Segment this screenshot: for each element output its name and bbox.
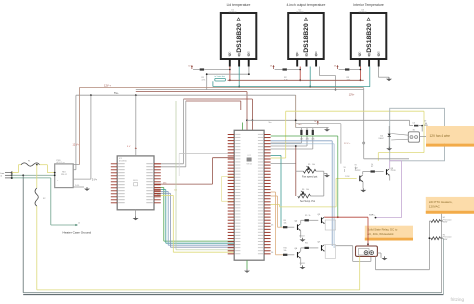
svg-text:DS18B20: DS18B20 [359,12,367,14]
wire sensor data down [176,101,234,250]
svg-text:LID PTC Heaters,: LID PTC Heaters, [429,200,453,204]
svg-text:4.7k: 4.7k [202,80,206,82]
wire R8 to Q4 [288,226,295,228]
controller IC2 [228,130,271,260]
tiny resistor fan feed [413,123,423,127]
svg-text:4-inch output temperature: 4-inch output temperature [287,3,326,7]
wire AC hot to fuse [12,165,55,173]
svg-text:10k: 10k [306,189,309,191]
fan circuit outline [390,108,445,161]
wire yellow down [271,111,286,158]
pin stubs IC1 right [154,164,161,196]
svg-text:12 V +: 12 V + [344,143,351,145]
svg-text:1k: 1k [371,164,373,166]
resistor R7 [371,164,375,173]
AC line terminals [1,172,13,179]
junction fan feed [421,125,423,132]
wire grey y120.3 [247,120,413,125]
junction Vin [246,119,271,124]
power symbol 5V pullups [314,121,319,125]
wire hot down [36,165,38,290]
wire Q4 collector [301,220,305,223]
wire orange from IC2 a [271,195,278,197]
watermark fritzing [451,297,465,302]
wire U2 VDD [275,67,302,82]
temperature sensor U2 DS18B20 (Fan output temperature) [287,3,326,67]
ground D1 [386,147,392,151]
wire yellow loop at IC2 [222,177,243,202]
junction AC hot [36,164,38,166]
svg-text:PWM: PWM [345,176,350,178]
microcontroller IC1 [111,156,161,210]
svg-text:MCU: MCU [133,180,138,182]
resistor R2 [283,68,288,81]
label D/C [163,182,167,184]
ground IC2 [244,269,250,273]
transistor Q4 [295,221,305,238]
wire AC earth [12,178,77,225]
wire blue1 down [271,141,333,246]
wire Q2 collector [363,172,371,175]
wire diode to motor [391,134,408,141]
resistor R3 [345,68,350,81]
wire IC1 5V supply [127,95,137,156]
svg-text:DS18B20: DS18B20 [296,12,304,14]
solid state relay K1 [356,246,378,256]
svg-text:2N2222: 2N2222 [299,236,305,238]
pin 5V fan [424,121,427,126]
wire AC neutral [12,174,55,176]
svg-text:Vin: Vin [269,122,272,124]
svg-text:120VAC: 120VAC [429,204,441,208]
svg-text:1k: 1k [309,215,311,217]
fuse F1 [21,161,40,167]
junction purple [375,217,377,219]
wire U2 DQ [309,67,311,87]
fan motor connector [408,130,419,143]
diode D1 [379,126,391,147]
wire green down [271,136,339,218]
resistor R10 10k [283,248,287,256]
ground Q6 [300,265,306,269]
wire base stage1 [278,196,284,227]
ground Q4 [300,238,306,242]
wire base stage2 [276,192,284,255]
svg-text:AC-DC ps: AC-DC ps [57,161,65,164]
wire U2 GND [319,67,335,90]
wire U1 VDD [193,67,231,82]
wire 5V to +5V node [295,95,297,127]
svg-text:10k: 10k [284,222,287,224]
wire U1 GND [207,67,249,90]
heater H1 [429,217,451,223]
wire R9 to Q5 [309,219,318,221]
wire 12V+ rail [79,83,364,87]
wire 1-wire bus (teal) [213,81,370,86]
wire SPI yellow [161,195,234,252]
wire teal down [271,156,281,228]
wire SSR frame [353,246,371,262]
label CLK [157,194,162,196]
wire yellow fanpwm [271,176,357,207]
power supply PS1 AC-DC [55,160,73,188]
svg-text:M1: M1 [413,130,415,132]
junction H2 [429,237,443,239]
wire 12V feed to fan [349,88,364,159]
wire PS1 GND out [73,185,84,187]
svg-text:R9: R9 [305,215,307,217]
pin labels stage2 [271,225,273,254]
svg-text:Set Temp. Pot: Set Temp. Pot [300,200,315,203]
svg-text:TIP120: TIP120 [391,170,396,172]
svg-text:1N4007: 1N4007 [379,138,384,140]
wire SSR AC out [376,221,430,270]
wire to IC1 right pins [161,99,186,167]
svg-text:5 V: 5 V [127,146,131,148]
wire VCC sensors (dark red) [228,79,364,81]
wire motor to label [420,136,427,138]
wire heater common [441,214,443,293]
wire Q6 collector [301,248,305,251]
svg-text:2N2222: 2N2222 [355,170,361,172]
wire PS1 5V out [73,95,97,181]
wire bus grey y89.6 [136,89,364,91]
wire R10 to Q6 [288,254,295,256]
wire IC1 gnd [135,210,137,217]
power symbol 5V for U3 [334,65,339,69]
resistor R1 [200,68,206,81]
wire Q3 emitter [389,176,391,181]
svg-text:DS18B20: DS18B20 [303,23,310,53]
resistor R4a 4.7k [271,128,304,143]
transistor Q5 [318,214,325,224]
svg-text:R7: R7 [371,166,373,168]
wire yellow top [286,111,424,161]
svg-text:MEGA: MEGA [246,163,252,166]
junction U1 dq [238,86,240,88]
potentiometer fan speed [296,164,324,179]
wire Q4 emitter gnd [300,231,302,238]
transistor Q2 [355,168,363,182]
wire bus y99 [184,99,253,130]
svg-text:10k: 10k [284,250,287,252]
svg-text:to 1-wire bus: to 1-wire bus [215,75,225,78]
label LID PTC Heaters [426,197,474,214]
svg-text:CLK: CLK [157,194,162,196]
svg-text:Fan speed pot: Fan speed pot [302,176,318,179]
svg-text:Lid temperature: Lid temperature [227,3,251,7]
ground PS1 [84,187,90,191]
fuse F2 [35,188,46,206]
resistor R11 [305,243,309,249]
wire stage2 to SSR [336,245,353,247]
wire R11 to Q7 [309,247,318,249]
resistor R4b 4.7k [271,128,309,146]
label 12V fan 4 wire [426,126,474,147]
svg-text:J2: J2 [78,222,80,224]
wire bus y101 [186,101,241,110]
wire neutral down [22,175,24,292]
label Heater Case Ground [63,231,92,235]
junction U2 dq [309,86,336,91]
wire SPI navy [161,193,234,247]
svg-text:4.7k: 4.7k [311,138,314,140]
svg-text:DS18B20: DS18B20 [366,23,373,53]
wire U3 VDD [339,67,362,82]
svg-text:5 V-: 5 V- [75,185,79,187]
svg-text:R5: R5 [308,164,310,166]
svg-text:12V +: 12V + [104,83,111,87]
ground pullups [324,128,330,132]
wire R7 to Q3 [375,171,383,174]
pin 5V small b [355,165,358,170]
wire bus VCC y91.6 [136,92,247,131]
wire Q5 collector SSR+ [325,214,376,244]
junction 5V [90,94,137,96]
ground IC1 [133,216,139,220]
junction AC neutral [22,174,24,176]
svg-text:SSR +: SSR + [369,214,376,216]
wire pot left [271,145,297,196]
wire Q6 emitter gnd [300,258,302,265]
transistor Q7 [318,241,325,251]
svg-text:4.7k: 4.7k [306,138,309,140]
temperature sensor U1 DS18B20 (Lid temperature) [221,3,256,67]
heater H2 [429,234,451,240]
svg-text:12 V+: 12 V+ [73,143,80,146]
transistor Q3 [387,168,396,175]
wire pullup bracket [296,127,329,129]
ground for U3 [386,77,392,81]
svg-text:in: in [1,176,3,178]
label 12V+ [73,143,80,146]
svg-text:Interior Temperature: Interior Temperature [353,3,384,7]
wire SPI teal [161,190,234,244]
junction +5V [295,119,302,126]
svg-text:D1: D1 [381,135,383,137]
wire SPI blue [161,191,234,245]
wire D/C [161,158,234,184]
wire Q3 collector purple [376,161,402,218]
resistor R9 [305,215,311,221]
ground SSR [382,256,388,260]
svg-text:R6: R6 [302,189,304,191]
resistor R4c 4.7k [271,128,315,149]
svg-text:DS18B20: DS18B20 [236,23,243,53]
junction SSR+ [367,243,369,246]
power symbol 5V for U2 [270,65,275,69]
wire SSR AC in yellow [359,256,361,290]
svg-text:fritzing: fritzing [451,297,465,302]
wire green stub IC2 top [241,123,243,131]
svg-text:12V fan 4 wire: 12V fan 4 wire [430,134,451,138]
wire pot right [324,171,327,196]
svg-text:D5: D5 [271,225,273,227]
wire 5V+ rail [76,91,296,95]
wire loop Q5 [325,220,335,230]
svg-text:AT-MEGA: AT-MEGA [119,159,127,162]
svg-text:AC, 40A, W/Heatsink: AC, 40A, W/Heatsink [367,232,394,236]
wire U3 DQ [369,67,371,87]
power symbol 5V for U1 [188,65,193,69]
svg-text:DS18B20: DS18B20 [229,12,237,14]
svg-text:Heater Case Ground: Heater Case Ground [63,231,92,235]
junction H1 [441,220,443,222]
ground Q2 [360,182,366,192]
wire SPI green [161,188,234,242]
wire SSR gnd [377,253,381,258]
label CS [174,190,177,192]
junction PS1 inputs [54,172,56,177]
resistor R8 10k [283,220,287,228]
wire blue2 down [271,144,335,248]
label Solid State Relay [365,226,413,241]
node header J1 (1-wire) [215,75,226,81]
wire PS1 out2 [73,95,76,170]
wire PS1 12V out [73,88,79,165]
svg-text:5 V+: 5 V+ [92,178,98,181]
wire AC neutral bottom [23,238,443,294]
svg-text:300W: 300W [443,222,448,224]
svg-text:5V+: 5V+ [114,91,119,95]
svg-text:4.7k: 4.7k [300,138,303,140]
pin 5V small a [344,167,347,172]
wire IC2 gnd [246,260,248,269]
transistor Q6 [295,248,306,265]
net label 12V circle [344,142,365,145]
wire 12V into fan area [364,158,409,160]
svg-text:12V+: 12V+ [349,93,355,96]
wire AC hot bottom [37,289,360,291]
svg-text:HLK: HLK [62,172,67,174]
wire orange from IC2 b [271,191,276,193]
svg-text:D6: D6 [271,252,273,254]
potentiometer set temp [298,189,324,203]
wire U1 DQ [238,67,240,87]
svg-text:+5V: +5V [298,124,302,126]
wire grey pot feed [296,124,341,164]
svg-text:R11: R11 [305,243,308,245]
pin heater case ground [75,222,80,226]
wire U3 GND [378,67,389,78]
svg-text:PM-12: PM-12 [61,174,68,176]
temperature sensor U3 DS18B20 (Interior Temperature) [351,3,387,67]
svg-text:100: 100 [413,123,416,125]
wire grey stub [179,153,234,176]
wire loop Q7 [325,245,335,259]
junction U1 gnd [206,73,250,75]
svg-text:10k: 10k [312,164,315,166]
ground pots [324,174,330,178]
